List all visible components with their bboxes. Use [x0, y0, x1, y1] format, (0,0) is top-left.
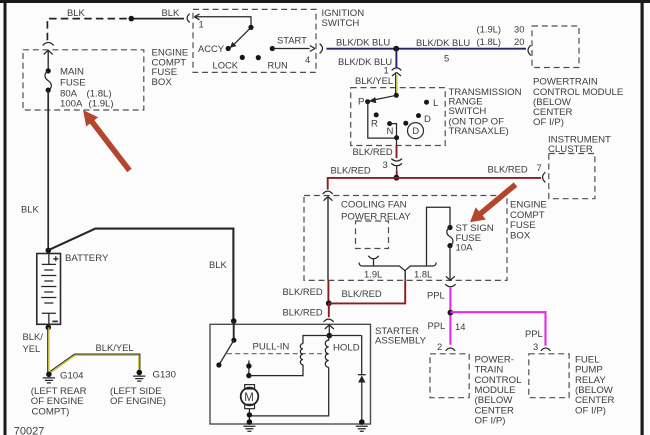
svg-text:3: 3	[533, 341, 538, 352]
svg-text:BLK/RED: BLK/RED	[342, 288, 382, 299]
svg-text:BLK: BLK	[67, 7, 85, 18]
svg-text:PPL: PPL	[428, 320, 446, 331]
svg-text:L: L	[433, 98, 439, 109]
svg-text:BLK/RED: BLK/RED	[283, 307, 323, 318]
svg-text:OF ENGINE): OF ENGINE)	[110, 396, 166, 407]
svg-text:20: 20	[514, 36, 524, 47]
svg-text:M: M	[244, 392, 254, 404]
svg-text:5: 5	[444, 52, 449, 63]
svg-text:BOX: BOX	[510, 230, 531, 241]
svg-text:D: D	[424, 114, 431, 125]
svg-text:BLK/RED: BLK/RED	[283, 286, 323, 297]
svg-text:1: 1	[199, 18, 204, 29]
svg-text:2: 2	[437, 341, 442, 352]
svg-text:(1.9L): (1.9L)	[89, 99, 114, 110]
svg-text:(1.8L): (1.8L)	[477, 36, 502, 47]
svg-text:OF I/P): OF I/P)	[533, 117, 564, 128]
svg-text:4: 4	[305, 54, 310, 65]
svg-text:7: 7	[537, 162, 542, 173]
svg-text:G104: G104	[60, 370, 84, 381]
svg-text:YEL: YEL	[23, 343, 41, 354]
svg-text:R: R	[371, 118, 378, 129]
svg-text:OF I/P): OF I/P)	[575, 405, 606, 416]
svg-text:HOLD: HOLD	[333, 343, 360, 354]
svg-text:START: START	[277, 35, 307, 46]
svg-text:CLUSTER: CLUSTER	[548, 144, 593, 155]
svg-text:COMPT): COMPT)	[32, 406, 70, 417]
svg-text:POWER RELAY: POWER RELAY	[341, 211, 411, 222]
svg-text:MAIN: MAIN	[60, 67, 84, 78]
svg-text:BLK: BLK	[209, 259, 227, 270]
svg-text:LOCK: LOCK	[213, 60, 239, 71]
svg-text:BOX: BOX	[152, 77, 173, 88]
svg-text:P: P	[358, 97, 364, 108]
svg-text:3: 3	[383, 159, 388, 170]
svg-text:(1.9L): (1.9L)	[477, 23, 502, 34]
svg-text:1.8L: 1.8L	[414, 269, 432, 280]
svg-text:14: 14	[455, 321, 465, 332]
svg-text:N: N	[387, 126, 394, 137]
svg-text:BLK: BLK	[162, 7, 180, 18]
svg-text:COOLING FAN: COOLING FAN	[341, 199, 407, 210]
svg-text:BLK/RED: BLK/RED	[488, 164, 528, 175]
svg-text:RUN: RUN	[268, 60, 288, 71]
svg-text:BLK/DK BLU: BLK/DK BLU	[416, 37, 470, 48]
svg-text:D: D	[412, 125, 419, 136]
svg-text:OF I/P): OF I/P)	[475, 415, 506, 426]
svg-text:BLK/RED: BLK/RED	[331, 165, 371, 176]
svg-text:BLK/YEL: BLK/YEL	[96, 342, 134, 353]
svg-text:PULL-IN: PULL-IN	[253, 342, 290, 353]
svg-text:ASSEMBLY: ASSEMBLY	[375, 336, 427, 347]
svg-text:70027: 70027	[14, 426, 45, 435]
svg-text:SWITCH: SWITCH	[322, 18, 360, 29]
svg-text:1: 1	[384, 65, 389, 76]
svg-text:PPL: PPL	[427, 289, 445, 300]
svg-text:BLK/YEL: BLK/YEL	[355, 75, 393, 86]
svg-text:BLK: BLK	[21, 204, 39, 215]
svg-text:1.9L: 1.9L	[364, 269, 382, 280]
svg-text:30: 30	[514, 23, 524, 34]
svg-text:10A: 10A	[456, 243, 474, 254]
svg-text:100A: 100A	[60, 99, 83, 110]
svg-text:BLK/RED: BLK/RED	[353, 146, 393, 157]
svg-text:ACCY: ACCY	[198, 43, 225, 54]
svg-text:BLK/: BLK/	[23, 331, 44, 342]
svg-text:BATTERY: BATTERY	[65, 253, 109, 264]
svg-text:TRANSAXLE): TRANSAXLE)	[449, 126, 509, 137]
svg-text:G130: G130	[153, 369, 176, 380]
svg-text:BLK/DK BLU: BLK/DK BLU	[336, 37, 390, 48]
svg-text:FUSE: FUSE	[60, 78, 86, 89]
svg-text:PPL: PPL	[525, 328, 543, 339]
